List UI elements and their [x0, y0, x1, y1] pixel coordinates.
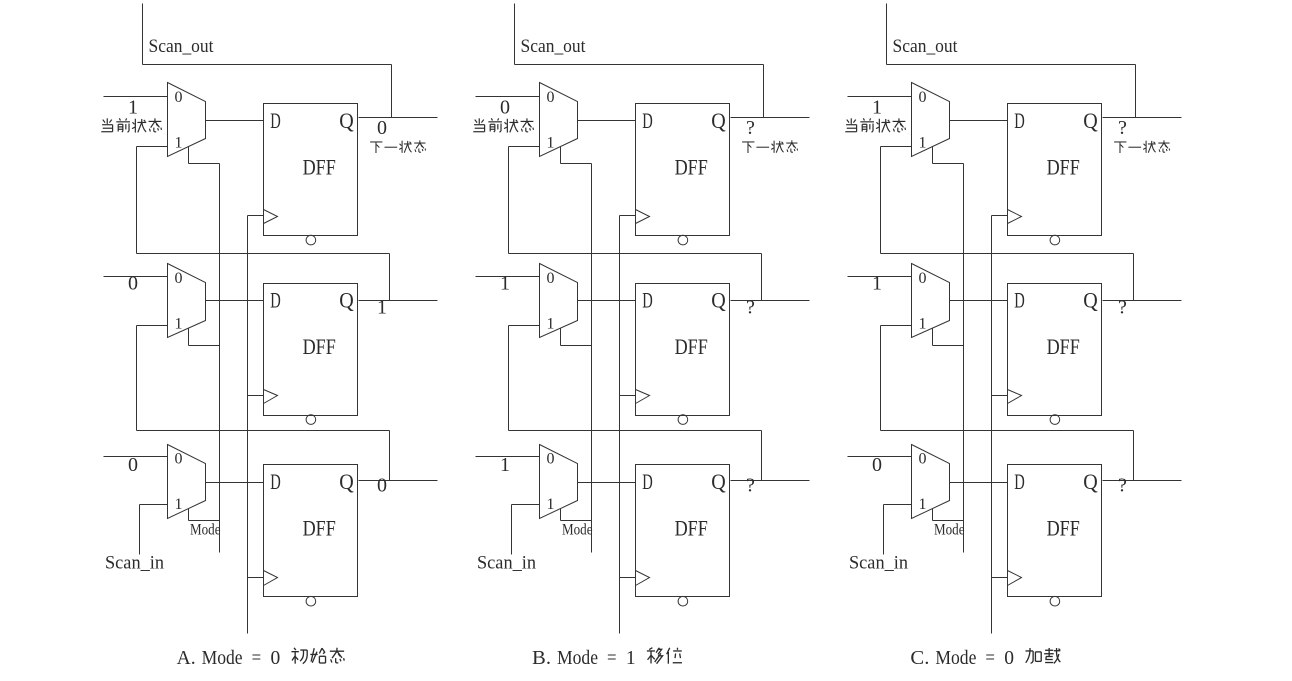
- wire mux output to D (panel B row 2): [578, 300, 636, 302]
- svg-text:0: 0: [547, 89, 555, 106]
- wire Q2 to mux1 horizontal (panel A): [137, 253, 390, 255]
- clock pin triangle (panel A DFF U4): [264, 210, 278, 224]
- svg-text:=: =: [607, 648, 617, 669]
- wire mux2 input-1 feedback vertical (panel B): [508, 326, 510, 431]
- label 下一状态 next-state (panel A): [370, 140, 425, 153]
- svg-text:1: 1: [626, 648, 636, 669]
- svg-text:DFF: DFF: [675, 516, 708, 541]
- svg-text:DFF: DFF: [1047, 334, 1080, 359]
- wire Mode vertical (panel A): [219, 164, 221, 553]
- svg-text:1: 1: [377, 297, 387, 319]
- svg-text:Mode: Mode: [190, 522, 221, 539]
- svg-text:=: =: [252, 648, 262, 669]
- reset bubble (panel C DFF U4): [1050, 235, 1060, 245]
- wire clock tap (panel C row 3): [992, 577, 1008, 579]
- wire mux output to D (panel C row 1): [950, 120, 1008, 122]
- svg-text:1: 1: [872, 273, 882, 295]
- DFF U5 (panel C row 2): [1008, 284, 1102, 416]
- svg-text:0: 0: [175, 89, 183, 106]
- wire clock tap (panel B row 3): [620, 577, 636, 579]
- wire input-0 (panel C row 3): [848, 456, 912, 458]
- svg-text:?: ?: [1118, 297, 1127, 319]
- wire input-0 (panel A row 3): [104, 456, 168, 458]
- svg-text:0: 0: [500, 97, 510, 119]
- DFF U6 (panel C row 3): [1008, 465, 1102, 597]
- svg-text:0: 0: [377, 117, 387, 139]
- svg-text:Q: Q: [1083, 108, 1098, 133]
- clock pin triangle (panel C DFF U6): [1008, 571, 1022, 586]
- wire input-1 (panel B row 1): [509, 146, 540, 148]
- wire Scan_in vertical (panel A): [139, 505, 141, 555]
- svg-text:1: 1: [175, 135, 183, 152]
- wire Scan_out top vertical (panel A): [142, 4, 144, 65]
- wire input-0 (panel B row 1): [476, 96, 540, 98]
- wire input-0 (panel C row 1): [848, 96, 912, 98]
- wire clock tap (panel A row 3): [248, 577, 264, 579]
- svg-text:0: 0: [175, 451, 183, 468]
- svg-text:DFF: DFF: [675, 334, 708, 359]
- wire mux select horizontal to Mode line (panel B row 1): [561, 163, 592, 165]
- wire Scan_out horizontal (panel B): [515, 64, 764, 66]
- wire Q3 to mux2 horizontal (panel B): [509, 430, 762, 432]
- svg-text:0: 0: [919, 270, 927, 287]
- svg-text:Scan_out: Scan_out: [893, 37, 959, 57]
- wire Q output (panel A row 2): [359, 300, 438, 302]
- svg-text:1: 1: [500, 273, 510, 295]
- svg-text:D: D: [1014, 108, 1025, 133]
- wire input-0 (panel A row 2): [104, 276, 168, 278]
- wire clock vertical (panel B): [619, 216, 621, 634]
- svg-text:DFF: DFF: [1047, 155, 1080, 180]
- wire mux output to D (panel A row 1): [206, 120, 264, 122]
- wire mux select drop (panel A row 1): [188, 147, 190, 164]
- wire Q output (panel C row 3): [1103, 480, 1182, 482]
- DFF U4 (panel A row 1): [264, 104, 358, 236]
- wire mux select drop (panel B row 1): [560, 147, 562, 164]
- wire input-1 (panel C row 1): [881, 146, 912, 148]
- svg-text:Scan_in: Scan_in: [849, 554, 908, 574]
- svg-text:Scan_in: Scan_in: [477, 554, 536, 574]
- svg-text:?: ?: [746, 297, 755, 319]
- label 当前状态 current-state (panel C): [845, 118, 905, 132]
- wire Q output (panel C row 2): [1103, 300, 1182, 302]
- clock pin triangle (panel B DFF U4): [636, 210, 650, 224]
- svg-text:Q: Q: [339, 469, 354, 494]
- svg-text:?: ?: [746, 117, 755, 139]
- svg-text:Q: Q: [339, 108, 354, 133]
- wire mux select drop (panel C row 1): [932, 147, 934, 164]
- wire Scan_in vertical (panel B): [511, 505, 513, 555]
- wire Q output (panel C row 1): [1103, 117, 1182, 119]
- reset bubble (panel B DFF U4): [678, 235, 688, 245]
- svg-text:?: ?: [1118, 475, 1127, 497]
- wire mux select drop (panel B row 3): [560, 509, 562, 521]
- wire mux output to D (panel B row 3): [578, 482, 636, 484]
- wire mux select horizontal to Mode line (panel C row 2): [933, 345, 964, 347]
- wire Q3 riser (panel B): [761, 431, 763, 481]
- wire input-0 (panel B row 3): [476, 456, 540, 458]
- svg-text:0: 0: [128, 273, 138, 295]
- svg-text:0: 0: [547, 270, 555, 287]
- svg-text:D: D: [642, 108, 653, 133]
- wire clock vertical (panel C): [991, 216, 993, 634]
- wire mux output to D (panel C row 2): [950, 300, 1008, 302]
- wire Q3 riser (panel A): [389, 431, 391, 481]
- mux U2 (panel C row 2): [912, 264, 950, 338]
- wire mux2 input-1 feedback vertical (panel C): [880, 326, 882, 431]
- wire mux select horizontal to Mode line (panel B row 2): [561, 345, 592, 347]
- svg-text:1: 1: [547, 135, 555, 152]
- wire Q3 to mux2 horizontal (panel C): [881, 430, 1134, 432]
- svg-text:0: 0: [128, 454, 138, 476]
- svg-text:1: 1: [547, 496, 555, 513]
- svg-text:DFF: DFF: [303, 516, 336, 541]
- wire mux select drop (panel A row 3): [188, 509, 190, 521]
- wire input-1 (panel B row 2): [509, 325, 540, 327]
- svg-text:0: 0: [919, 451, 927, 468]
- svg-text:Mode: Mode: [557, 648, 598, 669]
- reset bubble (panel B DFF U6): [678, 596, 688, 606]
- label 下一状态 next-state (panel B): [742, 140, 797, 153]
- wire input-0 (panel A row 1): [104, 96, 168, 98]
- clock pin triangle (panel C DFF U5): [1008, 390, 1022, 404]
- DFF U6 (panel B row 3): [636, 465, 730, 597]
- wire mux select horizontal to Mode line (panel A row 3): [189, 520, 220, 522]
- wire Q2 riser (panel B): [761, 254, 763, 301]
- svg-text:D: D: [1014, 469, 1025, 494]
- svg-text:1: 1: [919, 135, 927, 152]
- svg-text:DFF: DFF: [303, 334, 336, 359]
- svg-text:1: 1: [872, 97, 882, 119]
- wire Scan_out drop to Q1 (panel B): [763, 65, 765, 118]
- svg-text:?: ?: [746, 475, 755, 497]
- wire Scan_out drop to Q1 (panel C): [1135, 65, 1137, 118]
- clock pin triangle (panel A DFF U5): [264, 390, 278, 404]
- wire mux output to D (panel A row 2): [206, 300, 264, 302]
- wire Scan_out horizontal (panel A): [143, 64, 392, 66]
- label 当前状态 current-state (panel B): [473, 118, 533, 132]
- clock pin triangle (panel A DFF U6): [264, 571, 278, 586]
- label caption Chinese (panel A): [291, 648, 344, 664]
- svg-text:Mode: Mode: [935, 648, 976, 669]
- svg-text:D: D: [270, 469, 281, 494]
- wire Mode vertical (panel C): [963, 164, 965, 553]
- svg-text:Q: Q: [711, 288, 726, 313]
- wire input-0 (panel B row 2): [476, 276, 540, 278]
- clock pin triangle (panel B DFF U6): [636, 571, 650, 586]
- svg-text:Q: Q: [1083, 288, 1098, 313]
- wire mux2 input-1 feedback vertical (panel A): [136, 326, 138, 431]
- svg-text:0: 0: [175, 270, 183, 287]
- reset bubble (panel C DFF U5): [1050, 415, 1060, 425]
- wire Q output (panel A row 1): [359, 117, 438, 119]
- svg-text:C.: C.: [910, 648, 929, 669]
- svg-text:1: 1: [919, 496, 927, 513]
- wire input-1 (panel A row 3): [140, 504, 168, 506]
- wire clock tap (panel A row 2): [248, 395, 264, 397]
- svg-text:0: 0: [1004, 648, 1014, 669]
- wire input-1 (panel C row 2): [881, 325, 912, 327]
- wire mux output to D (panel C row 3): [950, 482, 1008, 484]
- svg-text:DFF: DFF: [303, 155, 336, 180]
- wire mux1 input-1 feedback vertical (panel A): [136, 147, 138, 254]
- svg-text:0: 0: [377, 475, 387, 497]
- svg-text:1: 1: [919, 315, 927, 332]
- wire mux select horizontal to Mode line (panel C row 3): [933, 520, 964, 522]
- wire mux select drop (panel A row 2): [188, 329, 190, 346]
- svg-text:1: 1: [547, 315, 555, 332]
- wire mux output to D (panel A row 3): [206, 482, 264, 484]
- mux U3 (panel C row 3): [912, 445, 950, 519]
- wire mux select drop (panel C row 3): [932, 509, 934, 521]
- svg-text:Q: Q: [711, 108, 726, 133]
- svg-text:Q: Q: [339, 288, 354, 313]
- wire Scan_in vertical (panel C): [883, 505, 885, 555]
- mux U2 (panel B row 2): [540, 264, 578, 338]
- wire Q3 riser (panel C): [1133, 431, 1135, 481]
- wire Q2 to mux1 horizontal (panel B): [509, 253, 762, 255]
- clock pin triangle (panel C DFF U4): [1008, 210, 1022, 224]
- svg-text:D: D: [270, 108, 281, 133]
- DFF U5 (panel B row 2): [636, 284, 730, 416]
- wire mux select drop (panel B row 2): [560, 329, 562, 346]
- label 当前状态 current-state (panel A): [101, 118, 161, 132]
- wire input-0 (panel C row 2): [848, 276, 912, 278]
- label caption Chinese (panel C): [1025, 648, 1060, 663]
- svg-text:1: 1: [500, 454, 510, 476]
- svg-text:1: 1: [175, 315, 183, 332]
- svg-text:D: D: [270, 288, 281, 313]
- svg-text:DFF: DFF: [1047, 516, 1080, 541]
- wire input-1 (panel A row 2): [137, 325, 168, 327]
- svg-text:1: 1: [128, 97, 138, 119]
- svg-text:Scan_out: Scan_out: [521, 37, 587, 57]
- wire input-1 (panel A row 1): [137, 146, 168, 148]
- wire clock vertical (panel A): [247, 216, 249, 634]
- DFF U6 (panel A row 3): [264, 465, 358, 597]
- svg-text:D: D: [642, 288, 653, 313]
- mux U1 (panel B row 1): [540, 83, 578, 157]
- mux U3 (panel A row 3): [168, 445, 206, 519]
- wire clock tap (panel A row 1): [248, 215, 264, 217]
- wire Scan_out top vertical (panel C): [886, 4, 888, 65]
- label caption Chinese (panel B): [647, 648, 682, 664]
- svg-text:0: 0: [872, 454, 882, 476]
- svg-text:Mode: Mode: [562, 522, 593, 539]
- svg-text:B.: B.: [532, 648, 551, 669]
- reset bubble (panel A DFF U5): [306, 415, 316, 425]
- wire input-1 (panel C row 3): [884, 504, 912, 506]
- wire Q output (panel A row 3): [359, 480, 438, 482]
- svg-text:D: D: [1014, 288, 1025, 313]
- wire Scan_out drop to Q1 (panel A): [391, 65, 393, 118]
- wire mux select horizontal to Mode line (panel A row 1): [189, 163, 220, 165]
- wire clock tap (panel B row 2): [620, 395, 636, 397]
- DFF U4 (panel C row 1): [1008, 104, 1102, 236]
- svg-text:Q: Q: [1083, 469, 1098, 494]
- wire clock tap (panel C row 1): [992, 215, 1008, 217]
- svg-text:A.: A.: [177, 648, 196, 669]
- wire mux output to D (panel B row 1): [578, 120, 636, 122]
- svg-text:Scan_in: Scan_in: [105, 554, 164, 574]
- DFF U4 (panel B row 1): [636, 104, 730, 236]
- wire Scan_out top vertical (panel B): [514, 4, 516, 65]
- wire Q3 to mux2 horizontal (panel A): [137, 430, 390, 432]
- svg-text:Mode: Mode: [202, 648, 243, 669]
- wire input-1 (panel B row 3): [512, 504, 540, 506]
- wire mux1 input-1 feedback vertical (panel B): [508, 147, 510, 254]
- mux U3 (panel B row 3): [540, 445, 578, 519]
- reset bubble (panel A DFF U6): [306, 596, 316, 606]
- svg-text:Q: Q: [711, 469, 726, 494]
- wire Q output (panel B row 1): [731, 117, 810, 119]
- wire mux select horizontal to Mode line (panel B row 3): [561, 520, 592, 522]
- wire Q output (panel B row 3): [731, 480, 810, 482]
- svg-text:Mode: Mode: [934, 522, 965, 539]
- reset bubble (panel C DFF U6): [1050, 596, 1060, 606]
- mux U1 (panel A row 1): [168, 83, 206, 157]
- reset bubble (panel A DFF U4): [306, 235, 316, 245]
- wire Q2 riser (panel A): [389, 254, 391, 301]
- svg-text:DFF: DFF: [675, 155, 708, 180]
- wire mux select drop (panel C row 2): [932, 329, 934, 346]
- svg-text:Scan_out: Scan_out: [149, 37, 215, 57]
- wire Q2 to mux1 horizontal (panel C): [881, 253, 1134, 255]
- DFF U5 (panel A row 2): [264, 284, 358, 416]
- wire Mode vertical (panel B): [591, 164, 593, 553]
- wire mux select horizontal to Mode line (panel C row 1): [933, 163, 964, 165]
- svg-text:0: 0: [919, 89, 927, 106]
- svg-text:?: ?: [1118, 117, 1127, 139]
- svg-text:0: 0: [271, 648, 281, 669]
- clock pin triangle (panel B DFF U5): [636, 390, 650, 404]
- mux U1 (panel C row 1): [912, 83, 950, 157]
- wire mux1 input-1 feedback vertical (panel C): [880, 147, 882, 254]
- svg-text:=: =: [985, 648, 995, 669]
- svg-text:D: D: [642, 469, 653, 494]
- wire Scan_out horizontal (panel C): [887, 64, 1136, 66]
- wire Q2 riser (panel C): [1133, 254, 1135, 301]
- label 下一状态 next-state (panel C): [1114, 140, 1170, 153]
- wire clock tap (panel B row 1): [620, 215, 636, 217]
- wire Q output (panel B row 2): [731, 300, 810, 302]
- wire mux select horizontal to Mode line (panel A row 2): [189, 345, 220, 347]
- svg-text:1: 1: [175, 496, 183, 513]
- svg-text:0: 0: [547, 451, 555, 468]
- mux U2 (panel A row 2): [168, 264, 206, 338]
- wire clock tap (panel C row 2): [992, 395, 1008, 397]
- reset bubble (panel B DFF U5): [678, 415, 688, 425]
